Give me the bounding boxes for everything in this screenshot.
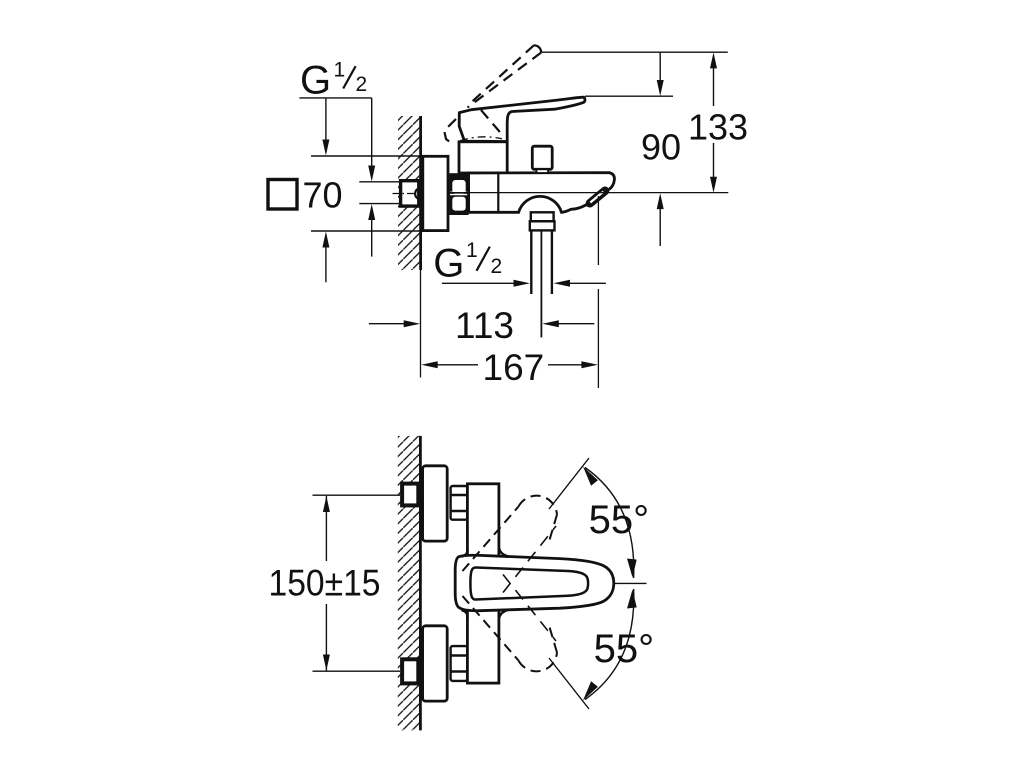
svg-text:167: 167 (483, 347, 545, 388)
svg-text:2: 2 (491, 255, 503, 278)
svg-text:70: 70 (303, 175, 343, 216)
svg-text:1: 1 (334, 58, 346, 81)
svg-text:G: G (433, 242, 464, 286)
svg-text:G: G (300, 59, 331, 103)
svg-text:1: 1 (466, 239, 478, 262)
svg-text:55°: 55° (594, 627, 655, 671)
svg-text:133: 133 (688, 107, 748, 148)
svg-text:2: 2 (356, 73, 368, 96)
svg-text:90: 90 (641, 127, 681, 168)
svg-text:55°: 55° (589, 498, 650, 542)
svg-text:150±15: 150±15 (269, 563, 381, 604)
svg-text:113: 113 (455, 305, 514, 346)
